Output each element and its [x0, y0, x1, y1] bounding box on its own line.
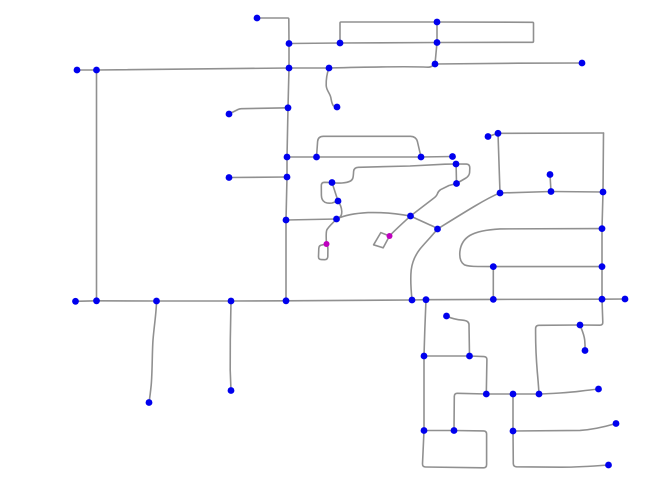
node n38 — [443, 313, 450, 320]
node n20 — [453, 180, 460, 187]
node n52 — [466, 353, 473, 360]
node n25 — [333, 216, 340, 223]
wire e36 (diamond loop at m02) — [374, 233, 390, 248]
wire e39 (bulge loop n19-n20) — [456, 164, 470, 184]
wire e29 (sliver loop right n23-n24) — [332, 183, 338, 202]
node n61 — [605, 462, 612, 469]
wire e10 (wire n05-n04 right loop) — [437, 22, 534, 43]
node n54 — [451, 427, 458, 434]
wire e45 (rect right n34) — [602, 133, 605, 192]
wire e64 (wire n54-n55) — [454, 393, 486, 430]
node n06 — [432, 61, 439, 68]
wire e11 (wire n04-n03 left loop) — [340, 22, 437, 43]
node n51 — [421, 353, 428, 360]
node n05 — [434, 39, 441, 46]
wire e08 (wire n02-n03) — [289, 42, 340, 45]
wire e61 (wire n51-n52) — [424, 355, 470, 357]
wire e28 (sliver loop left n23-n24) — [321, 182, 338, 203]
node n56 — [510, 391, 517, 398]
wire e71 (wire n59-n60) — [513, 424, 616, 432]
wire e67 (wire n57-n58) — [539, 389, 599, 394]
node n46 — [490, 296, 497, 303]
node n02 — [286, 40, 293, 47]
node n59 — [510, 428, 517, 435]
node n37 — [599, 263, 606, 270]
wire e62 (wire n52-n55) — [470, 356, 487, 394]
node n23 — [329, 179, 336, 186]
wire e21 (wire n12-n13) — [229, 108, 288, 114]
node n41 — [153, 298, 160, 305]
node n47 — [599, 296, 606, 303]
wire e58 (wire n42-n50) — [229, 301, 232, 391]
node n17 — [418, 154, 425, 161]
node n19 — [453, 161, 460, 168]
wire e75 (wire n62-n63) — [580, 325, 585, 351]
node n34 — [600, 189, 607, 196]
node n15 — [284, 154, 291, 161]
node n42 — [228, 298, 235, 305]
node n57 — [536, 391, 543, 398]
node n10 — [326, 65, 333, 72]
wire r03 (road n41-n42) — [157, 300, 232, 302]
wire e32 (curve n25-n27) — [337, 213, 411, 219]
node n60 — [613, 420, 620, 427]
node n39 — [72, 298, 79, 305]
wire e37 (diagonal n27-n20) — [411, 184, 457, 217]
wire e31 (wire n26-n25) — [286, 219, 337, 220]
wire r08 (road n46-n47) — [493, 298, 602, 300]
wire e48 (wire n33-n34) — [551, 191, 603, 194]
wire r06 (road n44-n45) — [412, 299, 426, 301]
wire e42 (curve n28-n44) — [411, 229, 438, 300]
node n24 — [335, 198, 342, 205]
wire e53 (wire n35-n37) — [601, 229, 603, 267]
wire e25 (wire n17-n18) — [421, 156, 453, 159]
node n29 — [485, 133, 492, 140]
node n58 — [595, 386, 602, 393]
wire e60 (wire n51-n53) — [423, 356, 425, 431]
wire e07 (trunk n26-n43) — [285, 220, 287, 301]
wire e49 (stub n32-n33) — [550, 175, 551, 192]
node n16 — [313, 154, 320, 161]
node n50 — [228, 387, 235, 394]
wire e51 (u-hook n35-n36) — [460, 229, 602, 267]
wire e33 (wire n25-m01) — [326, 219, 336, 244]
wire e05 (trunk n15-n21) — [286, 157, 288, 177]
node n35 — [599, 225, 606, 232]
wire e52 (wire n36-n37) — [493, 266, 602, 268]
wire e23 (wire n16-n17) — [317, 156, 422, 158]
wire e17 (road n09-n10) — [289, 67, 329, 69]
node n01 — [254, 15, 261, 22]
wire e66 (wire n56-n57) — [513, 393, 539, 395]
node n28 — [434, 226, 441, 233]
node n63 — [582, 347, 589, 354]
node n43 — [283, 297, 290, 304]
wire e47 (wire n31-n33) — [500, 192, 551, 194]
wire e24 (bump loop n16-n17) — [317, 136, 422, 157]
node n40 — [93, 297, 100, 304]
wire e57 (wire n41-n49) — [149, 301, 157, 403]
wire e50 (wire n34-n35) — [602, 192, 603, 229]
node n08 — [93, 67, 100, 74]
wire e70 (wire n56-n59) — [512, 394, 514, 431]
node n12 — [285, 104, 292, 111]
wire e09 (wire n03-n05) — [340, 42, 437, 45]
wire e59 (wire n45-n51) — [424, 300, 426, 356]
wire r07 (road n45-n46) — [426, 298, 493, 300]
wire e04 (trunk n12-n15) — [287, 108, 288, 157]
wire e26 (wire n21-n22) — [229, 176, 287, 179]
node n11 — [334, 104, 341, 111]
wire e06 (trunk n21-n26) — [286, 177, 287, 220]
wire e44 (rect top n30) — [498, 132, 604, 134]
node n48 — [622, 296, 629, 303]
wire e46 (rect left n30-n31) — [498, 133, 500, 193]
node n44 — [409, 297, 416, 304]
node n31 — [497, 190, 504, 197]
wire e16 (trunk n08-n40) — [96, 70, 98, 301]
wire e72 (wire n59-n61) — [513, 431, 609, 467]
wire e03 (trunk n09-n12) — [288, 68, 289, 108]
node n36 — [490, 263, 497, 270]
node n04 — [434, 19, 441, 26]
wire e19 (road n06-n14) — [435, 63, 582, 64]
wire e13 (wire n05-n06) — [435, 43, 437, 65]
node n55 — [483, 391, 490, 398]
node n62 — [577, 322, 584, 329]
node n14 — [579, 60, 586, 67]
wire r05 (road n43-n44) — [286, 299, 412, 302]
wire e12 (wire n04-n05) — [436, 22, 438, 43]
node n27 — [407, 213, 414, 220]
wire r02 (road n40-n41) — [97, 300, 157, 302]
wire e27 (wire n23-n19) — [332, 164, 456, 183]
wire e74 (wire n62-n57) — [536, 325, 580, 394]
node n13 — [226, 111, 233, 118]
wire r09 (road n47-n48) — [602, 298, 625, 300]
node n30 — [495, 130, 502, 137]
node m01 — [324, 241, 330, 247]
wire e15 (road n08-n09) — [97, 68, 290, 70]
wire e41 (diagonal n28-n31) — [438, 193, 501, 229]
node n03 — [337, 40, 344, 47]
wire e38 (wire n20-n19) — [455, 164, 457, 184]
node n33 — [548, 188, 555, 195]
wire e43 (wire n29-n30) — [488, 133, 498, 136]
node n07 — [74, 67, 81, 74]
wire r04 (road n42-n43) — [231, 300, 286, 302]
node n45 — [423, 296, 430, 303]
wire r01 (road n39-n40) — [76, 300, 97, 303]
wire e20 (squiggle n10-n11) — [326, 68, 337, 107]
node n49 — [146, 399, 153, 406]
node n32 — [547, 171, 554, 178]
wire e34 (block loop at m01) — [318, 244, 327, 260]
node n09 — [286, 65, 293, 72]
wire e14 (wire n07-n08) — [77, 69, 97, 71]
node n21 — [284, 174, 291, 181]
node n22 — [226, 174, 233, 181]
wire e69 (block loop n54-n53) — [422, 431, 486, 468]
node n26 — [283, 217, 290, 224]
wire e01 (wire corner n01-n02) — [257, 18, 289, 44]
wire e68 (wire n53-n54) — [424, 430, 454, 432]
wire e18 (road n10-n06) — [329, 64, 435, 68]
wire e63 (wire n38-n52) — [447, 316, 470, 356]
wire e65 (wire n55-n56) — [486, 393, 513, 395]
node m02 — [387, 233, 393, 239]
wire e73 (wire n47-n62) — [580, 299, 603, 325]
node n18 — [449, 153, 456, 160]
wire e55 (wire n36-n46) — [492, 267, 494, 300]
wire e40 (curve n27-n28) — [411, 216, 438, 229]
wire e35 (wire n27-m02) — [390, 216, 411, 236]
wire e22 (wire n15-n16) — [287, 156, 317, 158]
wire e54 (wire n37-n47) — [601, 267, 603, 300]
wire e02 (trunk n02-n09) — [288, 44, 290, 69]
wire e30 (wire n24-n25) — [337, 201, 342, 219]
node n53 — [421, 427, 428, 434]
